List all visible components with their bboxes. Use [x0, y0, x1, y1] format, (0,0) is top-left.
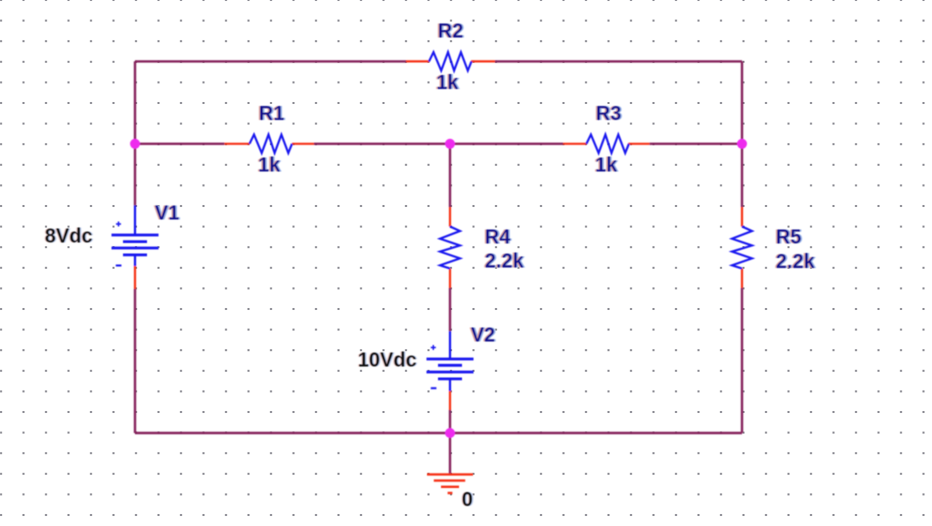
svg-text:1k: 1k: [595, 154, 618, 176]
svg-text:10Vdc: 10Vdc: [358, 350, 417, 372]
svg-text:8Vdc: 8Vdc: [45, 226, 93, 248]
svg-text:V1: V1: [155, 202, 179, 224]
svg-text:R1: R1: [259, 103, 285, 125]
svg-text:2.2k: 2.2k: [776, 251, 816, 273]
svg-text:0: 0: [462, 489, 473, 511]
svg-text:R2: R2: [438, 21, 464, 43]
svg-text:1k: 1k: [258, 154, 281, 176]
svg-text:R5: R5: [776, 226, 802, 248]
svg-text:V2: V2: [471, 324, 495, 346]
svg-text:R4: R4: [485, 226, 511, 248]
svg-text:R3: R3: [596, 103, 622, 125]
svg-text:2.2k: 2.2k: [485, 251, 525, 273]
svg-text:1k: 1k: [436, 72, 459, 94]
